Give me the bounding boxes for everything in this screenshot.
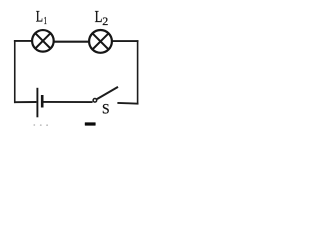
svg-text:2: 2 xyxy=(102,14,108,28)
wire: bottom right horizontal (switch contact to corner) xyxy=(117,102,138,105)
wire: left vertical xyxy=(14,40,16,103)
wire: battery to switch pivot xyxy=(43,101,92,103)
wire: top right horizontal xyxy=(113,40,139,42)
label L1 xyxy=(36,8,47,26)
svg-text:S: S xyxy=(102,102,110,117)
switch lever xyxy=(97,87,118,99)
switch pivot circle xyxy=(93,99,97,103)
wire: between lamps xyxy=(54,41,88,43)
wire: bottom left horizontal (corner to battery) xyxy=(14,101,36,103)
svg-text:1: 1 xyxy=(44,16,47,27)
cropped text fragment: black bar bottom xyxy=(85,122,96,125)
battery: long plate (left) xyxy=(36,88,38,118)
svg-text:L: L xyxy=(95,8,103,26)
wire: top left horizontal xyxy=(14,40,32,42)
svg-text:L: L xyxy=(36,8,43,25)
lamp L2 xyxy=(89,30,112,53)
battery: short thick plate (right) xyxy=(41,95,44,108)
label L2 xyxy=(95,8,109,28)
wire: right vertical xyxy=(137,40,139,104)
lamp L1 xyxy=(32,30,54,52)
faint specks bottom left xyxy=(33,124,48,126)
